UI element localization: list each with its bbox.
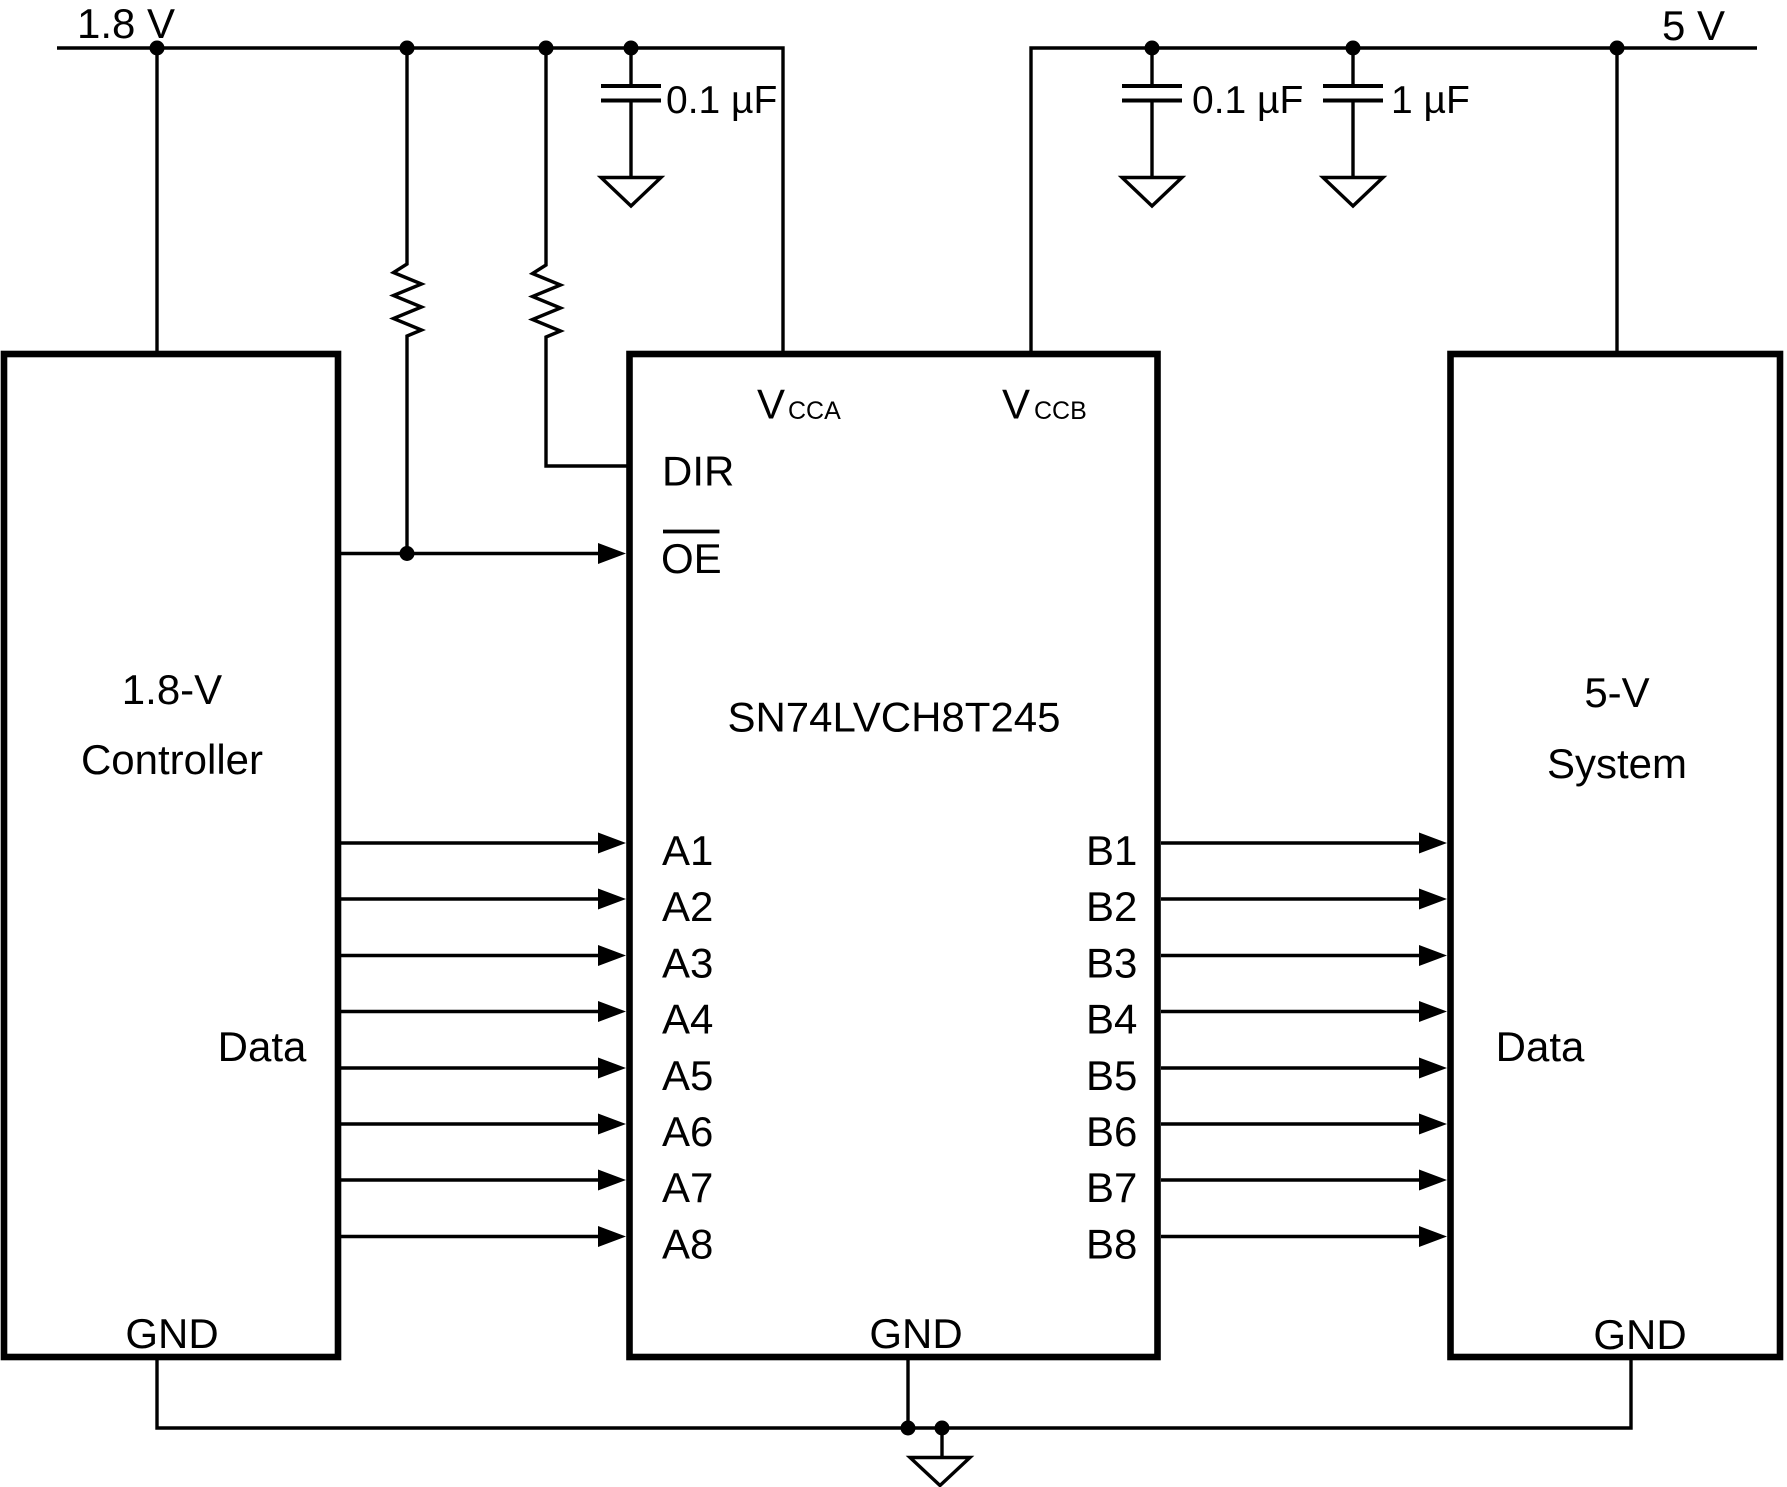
wire B8 [1161, 1235, 1421, 1238]
wire OE from controller [341, 552, 600, 555]
wire B2 [1161, 897, 1421, 900]
wire B3 [1161, 954, 1421, 957]
svg-text:System: System [1547, 740, 1687, 787]
wire ground bus [157, 1360, 1631, 1428]
wire 5V rail [1031, 48, 1757, 354]
node junction R1 [400, 41, 415, 56]
wire A4 [341, 1010, 600, 1013]
node junction GND center [901, 1421, 916, 1436]
capacitor C2 0.1uF (VCCB) [1122, 48, 1182, 176]
block U1 SN74LVCH8T245 [630, 354, 1158, 1357]
wire A3 [341, 954, 600, 957]
node junction 1.8V-controller [150, 41, 165, 56]
svg-text:B6: B6 [1086, 1108, 1137, 1155]
block U2 1.8-V Controller [4, 354, 338, 1357]
wire 1.8V to controller top [155, 48, 158, 354]
svg-text:DIR: DIR [662, 448, 734, 495]
wire B6 [1161, 1122, 1421, 1125]
resistor R1 (pullup on OE) [394, 48, 422, 554]
svg-text:GND: GND [125, 1310, 218, 1357]
svg-text:B5: B5 [1086, 1052, 1137, 1099]
svg-text:B3: B3 [1086, 940, 1137, 987]
node junction C1 [624, 41, 639, 56]
svg-text:A5: A5 [662, 1052, 713, 1099]
svg-text:A2: A2 [662, 883, 713, 930]
svg-text:0.1 µF: 0.1 µF [1192, 79, 1303, 122]
svg-text:B1: B1 [1086, 827, 1137, 874]
svg-text:CCA: CCA [788, 397, 841, 425]
wire B5 [1161, 1066, 1421, 1069]
wire A5 [341, 1066, 600, 1069]
block U3 5-V System [1451, 354, 1781, 1357]
node junction C3 [1346, 41, 1361, 56]
svg-text:Data: Data [1496, 1023, 1585, 1070]
wire A8 [341, 1235, 600, 1238]
svg-text:V: V [1002, 381, 1030, 428]
svg-text:5 V: 5 V [1662, 2, 1725, 49]
svg-text:B7: B7 [1086, 1164, 1137, 1211]
svg-text:Data: Data [218, 1023, 307, 1070]
wire B1 [1161, 841, 1421, 844]
wire A7 [341, 1178, 600, 1181]
svg-text:V: V [757, 381, 785, 428]
svg-text:GND: GND [1593, 1311, 1686, 1358]
wire B7 [1161, 1178, 1421, 1181]
svg-text:5-V: 5-V [1584, 669, 1649, 716]
wire A1 [341, 841, 600, 844]
wire SN74 GND to bus [906, 1360, 909, 1428]
node junction 5V-system [1610, 41, 1625, 56]
svg-text:0.1 µF: 0.1 µF [666, 79, 777, 122]
svg-text:A3: A3 [662, 940, 713, 987]
wire A6 [341, 1122, 600, 1125]
svg-text:A1: A1 [662, 827, 713, 874]
svg-text:A4: A4 [662, 996, 713, 1043]
svg-text:Controller: Controller [81, 736, 263, 783]
svg-text:OE: OE [661, 535, 722, 582]
wire B4 [1161, 1010, 1421, 1013]
ground (below C1) [601, 178, 661, 207]
wire A2 [341, 897, 600, 900]
svg-text:B4: B4 [1086, 996, 1137, 1043]
wire 1.8V rail [57, 48, 783, 354]
svg-text:A7: A7 [662, 1164, 713, 1211]
svg-text:1 µF: 1 µF [1391, 79, 1470, 122]
capacitor C1 0.1uF (VCCA) [601, 48, 661, 176]
ground (below C3) [1323, 178, 1383, 207]
svg-text:GND: GND [869, 1310, 962, 1357]
svg-text:CCB: CCB [1034, 397, 1087, 425]
svg-text:B2: B2 [1086, 883, 1137, 930]
ground (below C2) [1122, 178, 1182, 207]
ground (system ground) [910, 1458, 970, 1486]
svg-text:SN74LVCH8T245: SN74LVCH8T245 [727, 694, 1060, 741]
svg-text:1.8-V: 1.8-V [122, 666, 222, 713]
node junction R2 [539, 41, 554, 56]
node junction R1-OE [400, 546, 415, 561]
wire 5V to system top [1615, 48, 1618, 354]
svg-text:A6: A6 [662, 1108, 713, 1155]
capacitor C3 1uF (VCCB) [1323, 48, 1383, 176]
node junction GND stub [935, 1421, 950, 1436]
svg-text:A8: A8 [662, 1221, 713, 1268]
wire ground stub [940, 1428, 943, 1456]
resistor R2 (pullup on DIR) [533, 48, 630, 466]
svg-text:1.8 V: 1.8 V [77, 0, 175, 47]
node junction C2 [1145, 41, 1160, 56]
svg-text:B8: B8 [1086, 1221, 1137, 1268]
